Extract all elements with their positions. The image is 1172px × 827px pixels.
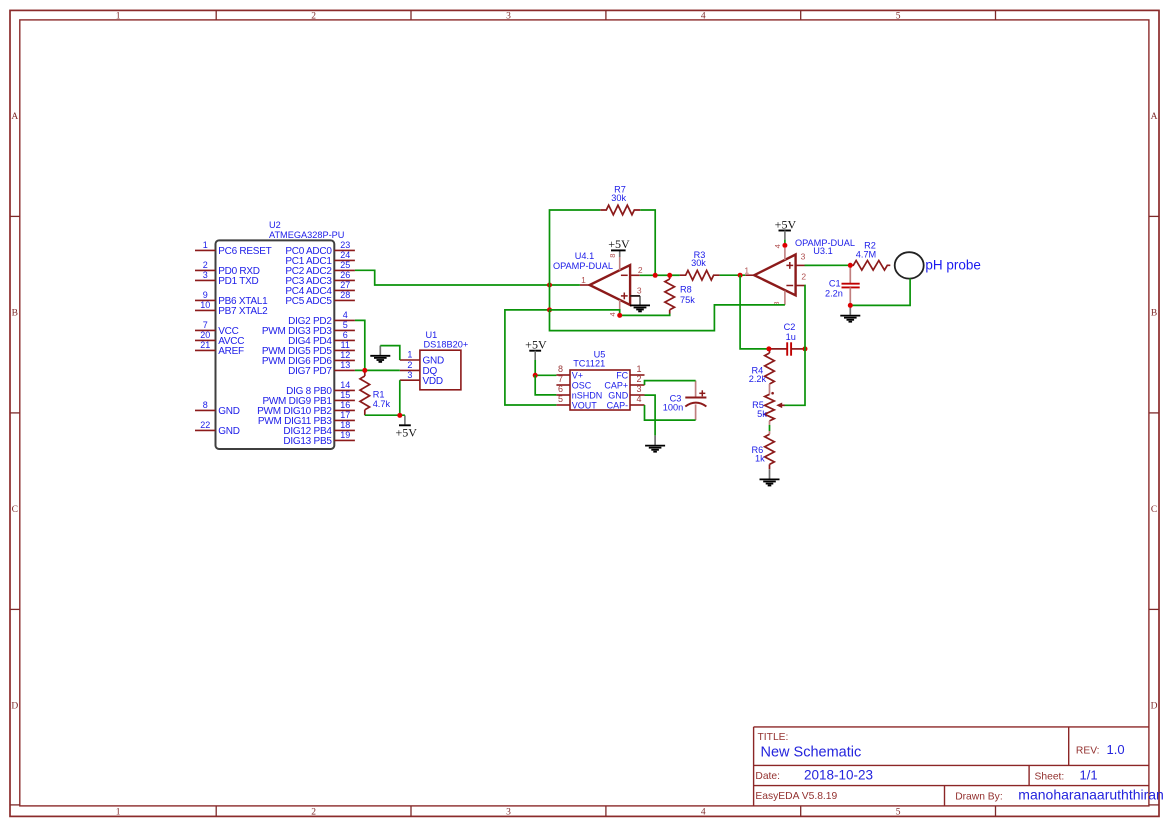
svg-text:OSC: OSC <box>572 380 592 390</box>
potentiometer R5 5k <box>765 392 785 425</box>
wire +5V to U5 V+ pin8 <box>535 360 556 375</box>
U2 pin 16 PWM DIG10 PB2 <box>257 400 355 417</box>
svg-text:9: 9 <box>203 290 208 300</box>
svg-text:1u: 1u <box>786 332 796 342</box>
U1 pin 3 VDD <box>400 370 443 387</box>
resistor R2 4.7M <box>850 261 890 271</box>
U3.1 non-inverting input marker <box>786 262 793 269</box>
svg-text:U3.1: U3.1 <box>813 246 832 256</box>
power +5V above U3.1 <box>775 217 797 245</box>
svg-text:7: 7 <box>203 320 208 330</box>
wire U5 pin2 CAP+ to C3 top <box>645 381 696 385</box>
svg-text:3: 3 <box>636 384 641 394</box>
junction U4.1 pin2 / R7 <box>653 273 658 278</box>
U2 pin 22 GND <box>195 420 240 437</box>
svg-text:4: 4 <box>608 312 617 316</box>
svg-text:2: 2 <box>407 360 412 370</box>
svg-text:1.0: 1.0 <box>1107 742 1125 757</box>
junction U3.1 pin4 +5V <box>782 243 787 248</box>
junction VOUT riser at R7 leg <box>547 307 552 312</box>
svg-text:TITLE:: TITLE: <box>758 732 789 743</box>
ground near U1 DS18B20 <box>379 346 381 356</box>
svg-text:AREF: AREF <box>218 346 244 357</box>
wire V- run to U3.1 pin8 <box>550 305 785 331</box>
U5 pin 7 OSC <box>556 374 591 391</box>
U5 pin 6 nSHDN <box>556 384 602 401</box>
svg-text:18: 18 <box>340 420 350 430</box>
svg-text:PC5 ADC5: PC5 ADC5 <box>285 296 332 307</box>
junction R3 right <box>738 273 743 278</box>
resistor R4 2.2k <box>765 349 775 394</box>
svg-text:5: 5 <box>896 11 901 21</box>
frame row letters right <box>1151 112 1158 712</box>
wire U1 pin3 VDD riser <box>399 380 401 415</box>
U2 pin 24 PC1 ADC1 <box>285 250 355 267</box>
U2 pin 4 DIG2 PD2 <box>288 310 355 327</box>
svg-text:17: 17 <box>340 410 350 420</box>
U2 pin 10 PB7 XTAL2 <box>195 300 268 317</box>
svg-text:4.7M: 4.7M <box>856 250 876 260</box>
svg-text:22: 22 <box>200 420 210 430</box>
junction +5V / U5 pin8 / pin6 branch <box>533 373 538 378</box>
frame ruler ticks top <box>216 10 995 20</box>
svg-text:3: 3 <box>637 285 642 295</box>
U3.1 inverting input marker <box>786 285 793 287</box>
svg-text:19: 19 <box>340 430 350 440</box>
svg-text:5: 5 <box>896 807 901 817</box>
svg-text:5k: 5k <box>757 409 767 419</box>
svg-text:4: 4 <box>701 807 706 817</box>
U3.1 pin 3 non-inverting input <box>796 251 806 265</box>
svg-text:GND: GND <box>608 390 629 400</box>
svg-text:2.2k: 2.2k <box>749 374 767 384</box>
U2 pin 18 DIG12 PB4 <box>283 420 355 437</box>
title block frame <box>754 727 1149 806</box>
wire U5 pin3 GND to ground <box>645 395 656 435</box>
U2 pin 26 PC3 ADC3 <box>285 270 355 287</box>
junction R2/C1/pin3 node <box>848 263 853 268</box>
U4.1 inverting input marker <box>621 274 628 276</box>
svg-text:3: 3 <box>506 807 511 817</box>
resistor R1 4.7k <box>360 370 370 415</box>
U2 pin 15 PWM DIG9 PB1 <box>262 390 354 407</box>
svg-text:GND: GND <box>218 426 240 437</box>
svg-text:+5V: +5V <box>395 426 417 440</box>
svg-text:1: 1 <box>116 807 121 817</box>
svg-text:+5V: +5V <box>525 338 547 352</box>
U2 pin 5 PWM DIG3 PD3 <box>262 320 355 337</box>
svg-text:GND: GND <box>423 356 445 367</box>
U4.1 non-inverting input marker <box>621 293 628 300</box>
svg-text:2: 2 <box>203 260 208 270</box>
svg-text:1/1: 1/1 <box>1080 767 1098 782</box>
svg-text:30k: 30k <box>611 193 626 203</box>
svg-text:1: 1 <box>116 11 121 21</box>
wire U4.1 pin3 to ground (black drop) <box>630 295 640 297</box>
svg-text:8: 8 <box>558 364 563 374</box>
svg-text:A: A <box>11 112 18 122</box>
svg-text:1: 1 <box>581 275 586 285</box>
U4.1 pin 8 V+ <box>608 250 620 270</box>
svg-text:D: D <box>1151 701 1158 711</box>
svg-text:OPAMP-DUAL: OPAMP-DUAL <box>553 261 613 271</box>
junction C2 right / U3.1 pin2 riser <box>803 346 808 351</box>
junction C1 bottom / ground <box>848 303 853 308</box>
svg-text:REV:: REV: <box>1076 746 1100 757</box>
svg-text:Date:: Date: <box>755 771 780 782</box>
polarized capacitor C3 100n <box>685 381 706 421</box>
U2 pin 14 DIG 8 PB0 <box>286 380 355 397</box>
frame ruler ticks left <box>10 216 20 805</box>
U2 pin 2 PD0 RXD <box>195 260 260 277</box>
wire VOUT to U4.1 pin4 <box>550 310 670 316</box>
svg-text:15: 15 <box>340 390 350 400</box>
junction DQ / R1 top <box>362 368 367 373</box>
wire U3.1 pin2 riser down to R5 wiper <box>785 286 806 406</box>
svg-text:4: 4 <box>343 310 348 320</box>
svg-text:2: 2 <box>311 11 316 21</box>
svg-text:1: 1 <box>407 350 412 360</box>
svg-text:6: 6 <box>343 330 348 340</box>
frame column numbers bottom <box>116 807 901 817</box>
frame column numbers top <box>116 11 901 21</box>
svg-text:nSHDN: nSHDN <box>572 390 603 400</box>
wire tick between R5 and R6 <box>769 425 771 431</box>
svg-text:1: 1 <box>636 364 641 374</box>
U2 pin 7 VCC <box>195 320 239 337</box>
svg-text:+5V: +5V <box>775 217 797 231</box>
svg-text:2: 2 <box>636 374 641 384</box>
U2 pin 12 PWM DIG6 PD6 <box>262 350 355 367</box>
svg-text:8: 8 <box>203 400 208 410</box>
svg-text:New Schematic: New Schematic <box>761 744 862 760</box>
wire U2 pin25 to U4.1 pin1 <box>355 270 580 285</box>
junction VDD / R1 bottom / +5V <box>397 413 402 418</box>
svg-text:3: 3 <box>801 251 806 261</box>
wire R3 to U3.1 pin1 <box>720 274 746 276</box>
svg-text:CAP-: CAP- <box>607 400 629 410</box>
U5 pin 1 FC <box>616 364 644 381</box>
U5 pin 5 VOUT <box>556 394 597 411</box>
U2 pin 27 PC4 ADC4 <box>285 280 355 297</box>
svg-text:U2: U2 <box>269 220 281 230</box>
junction U4.1 pin4 <box>617 313 622 318</box>
svg-text:B: B <box>12 308 18 318</box>
svg-text:3: 3 <box>203 270 208 280</box>
svg-text:EasyEDA V5.8.19: EasyEDA V5.8.19 <box>755 791 837 802</box>
svg-text:+5V: +5V <box>608 237 630 251</box>
wire U5 pin4 CAP- to C3 bottom <box>645 405 696 420</box>
junction R7 left leg on pin1 wire <box>547 283 552 288</box>
U2 pin 6 DIG4 PD4 <box>288 330 355 347</box>
U2 pin 9 PB6 XTAL1 <box>195 290 268 307</box>
svg-text:manoharanaaruththiran: manoharanaaruththiran <box>1018 787 1164 803</box>
svg-text:2.2n: 2.2n <box>825 289 843 299</box>
svg-text:4: 4 <box>636 394 641 404</box>
frame row letters left <box>11 112 18 712</box>
svg-text:12: 12 <box>340 350 350 360</box>
svg-text:7: 7 <box>558 374 563 384</box>
wire +5V branch to U5 pin6 nSHDN <box>535 375 556 395</box>
wire R1 bottom to +5V <box>365 414 405 416</box>
svg-text:2018-10-23: 2018-10-23 <box>804 767 873 782</box>
capacitor C1 2.2n <box>842 265 860 305</box>
svg-text:28: 28 <box>340 290 350 300</box>
U2 pin 21 AREF <box>195 340 244 357</box>
svg-text:C: C <box>1151 505 1157 515</box>
svg-text:3: 3 <box>407 370 412 380</box>
svg-text:CAP+: CAP+ <box>604 380 628 390</box>
svg-text:C: C <box>12 505 18 515</box>
U5 pin 3 GND <box>608 384 644 401</box>
svg-text:25: 25 <box>340 260 350 270</box>
wire R7 right leg to U4.1 pin2 <box>640 210 655 275</box>
svg-text:100n: 100n <box>663 403 683 413</box>
wire VOUT net: U5 pin5 left riser <box>505 310 557 405</box>
resistor R6 1k <box>765 431 775 469</box>
wire R7 left leg <box>550 210 601 285</box>
svg-text:PC6 RESET: PC6 RESET <box>218 246 271 257</box>
svg-text:C1: C1 <box>829 279 841 289</box>
svg-text:11: 11 <box>341 340 350 350</box>
svg-text:U4.1: U4.1 <box>575 251 594 261</box>
U2 pin 13 DIG7 PD7 <box>288 360 355 377</box>
ground below C1 <box>849 305 851 315</box>
IC U1 DS18B20+ body <box>420 350 461 390</box>
U4.1 pin 3 non-inverting input <box>630 285 642 296</box>
svg-text:5: 5 <box>558 394 563 404</box>
svg-text:4: 4 <box>701 11 706 21</box>
wire ground to U1 pin1 <box>380 346 400 360</box>
svg-text:pH probe: pH probe <box>925 257 981 272</box>
svg-text:DS18B20+: DS18B20+ <box>424 339 469 349</box>
svg-text:VOUT: VOUT <box>572 400 598 410</box>
frame ruler ticks right <box>1149 216 1159 805</box>
IC U5 TC1121 body <box>570 370 630 410</box>
U1 pin 1 GND <box>400 350 444 367</box>
U4.1 pin 4 V- <box>608 300 620 316</box>
frame ruler ticks bottom <box>216 806 995 817</box>
U3.1 pin 4 V+ <box>773 244 785 260</box>
U2 pin 28 PC5 ADC5 <box>285 290 355 307</box>
svg-text:ATMEGA328P-PU: ATMEGA328P-PU <box>269 230 344 240</box>
U5 pin 2 CAP+ <box>604 374 644 391</box>
wire vertical link pin1 node to VOUT node <box>549 285 551 310</box>
U3.1 pin 2 inverting input <box>796 272 807 286</box>
junction R8 top / R3 left <box>667 273 672 278</box>
U2 pin 25 PC2 ADC2 <box>285 260 355 277</box>
svg-text:4.7k: 4.7k <box>373 399 391 409</box>
svg-text:13: 13 <box>340 360 350 370</box>
U5 pin 8 V+ <box>556 364 583 381</box>
svg-text:16: 16 <box>340 400 350 410</box>
svg-text:1: 1 <box>744 265 749 275</box>
wire U3.1 pin3 to R2/C1 node <box>805 264 851 266</box>
U2 pin 11 PWM DIG5 PD5 <box>262 340 355 357</box>
wire branch from R3 node down to C2 row <box>740 275 769 349</box>
svg-text:75k: 75k <box>680 295 695 305</box>
wire U2 pin4 to DQ node <box>355 320 365 370</box>
svg-text:3: 3 <box>506 11 511 21</box>
U1 pin 2 DQ <box>400 360 438 377</box>
svg-text:2: 2 <box>638 265 643 275</box>
svg-text:14: 14 <box>340 380 350 390</box>
U4.1 pin 2 inverting input <box>630 265 643 275</box>
svg-text:10: 10 <box>200 300 210 310</box>
resistor R8 75k <box>665 275 675 313</box>
svg-text:21: 21 <box>200 340 210 350</box>
svg-text:GND: GND <box>218 406 240 417</box>
pH probe electrode P1 <box>895 252 924 278</box>
svg-text:D: D <box>11 701 18 711</box>
resistor R7 30k <box>600 205 640 215</box>
svg-text:2: 2 <box>311 807 316 817</box>
svg-text:1: 1 <box>203 240 208 250</box>
svg-text:DIG13 PB5: DIG13 PB5 <box>283 436 332 447</box>
power +5V below R1 (points down) <box>395 415 417 439</box>
power +5V above U4.1 <box>611 249 626 251</box>
U4.1 pin 1 output <box>580 275 590 285</box>
ground at U4.1 pin3 <box>630 296 650 312</box>
IC U2 ATMEGA328P-PU body <box>216 240 335 449</box>
svg-text:TC1121: TC1121 <box>573 359 605 369</box>
ground below C3 <box>654 435 656 445</box>
U5 pin 4 CAP- <box>607 394 645 411</box>
U2 pin 23 PC0 ADC0 <box>285 240 355 257</box>
wire U4.1 pin2 to R3 <box>640 274 680 276</box>
svg-text:8: 8 <box>608 254 617 258</box>
U3.1 pin 8 V- <box>772 291 785 306</box>
U2 pin 20 AVCC <box>195 330 244 347</box>
junction C2 left / R4 top <box>766 346 771 351</box>
svg-text:24: 24 <box>340 250 350 260</box>
svg-text:20: 20 <box>200 330 210 340</box>
svg-text:1k: 1k <box>755 453 765 463</box>
svg-text:FC: FC <box>616 370 628 380</box>
U3.1 pin 1 output <box>744 265 754 275</box>
svg-text:30k: 30k <box>691 258 706 268</box>
wire DQ node to U1 pin2 <box>355 369 400 371</box>
svg-text:Drawn By:: Drawn By: <box>955 791 1003 802</box>
power +5V near U5 <box>525 338 547 361</box>
svg-text:R8: R8 <box>680 285 692 295</box>
svg-text:VDD: VDD <box>423 376 443 387</box>
svg-text:4: 4 <box>773 244 782 248</box>
svg-text:C2: C2 <box>784 322 796 332</box>
U2 pin 19 DIG13 PB5 <box>283 430 355 447</box>
svg-text:27: 27 <box>340 280 350 290</box>
svg-text:PB7 XTAL2: PB7 XTAL2 <box>218 306 268 317</box>
U2 pin 3 PD1 TXD <box>195 270 259 287</box>
U2 pin 1 PC6 RESET <box>195 240 272 257</box>
capacitor C2 1u <box>769 342 805 355</box>
svg-text:23: 23 <box>340 240 350 250</box>
U2 pin 8 GND <box>195 400 240 417</box>
svg-text:DIG7 PD7: DIG7 PD7 <box>288 366 332 377</box>
svg-text:26: 26 <box>340 270 350 280</box>
svg-text:6: 6 <box>558 384 563 394</box>
svg-text:B: B <box>1151 308 1157 318</box>
U2 pin 17 PWM DIG11 PB3 <box>258 410 355 427</box>
svg-text:Sheet:: Sheet: <box>1035 771 1065 782</box>
resistor R3 30k <box>680 270 720 280</box>
op-amp U3.1 triangle <box>754 255 795 296</box>
svg-text:PD1 TXD: PD1 TXD <box>218 276 258 287</box>
svg-text:5: 5 <box>343 320 348 330</box>
wire pH probe return to C1 bottom <box>850 279 910 306</box>
svg-text:2: 2 <box>801 272 806 282</box>
svg-text:A: A <box>1151 112 1158 122</box>
svg-text:V+: V+ <box>572 370 583 380</box>
ground below R6 <box>769 469 771 479</box>
op-amp U4.1 triangle <box>590 265 631 305</box>
